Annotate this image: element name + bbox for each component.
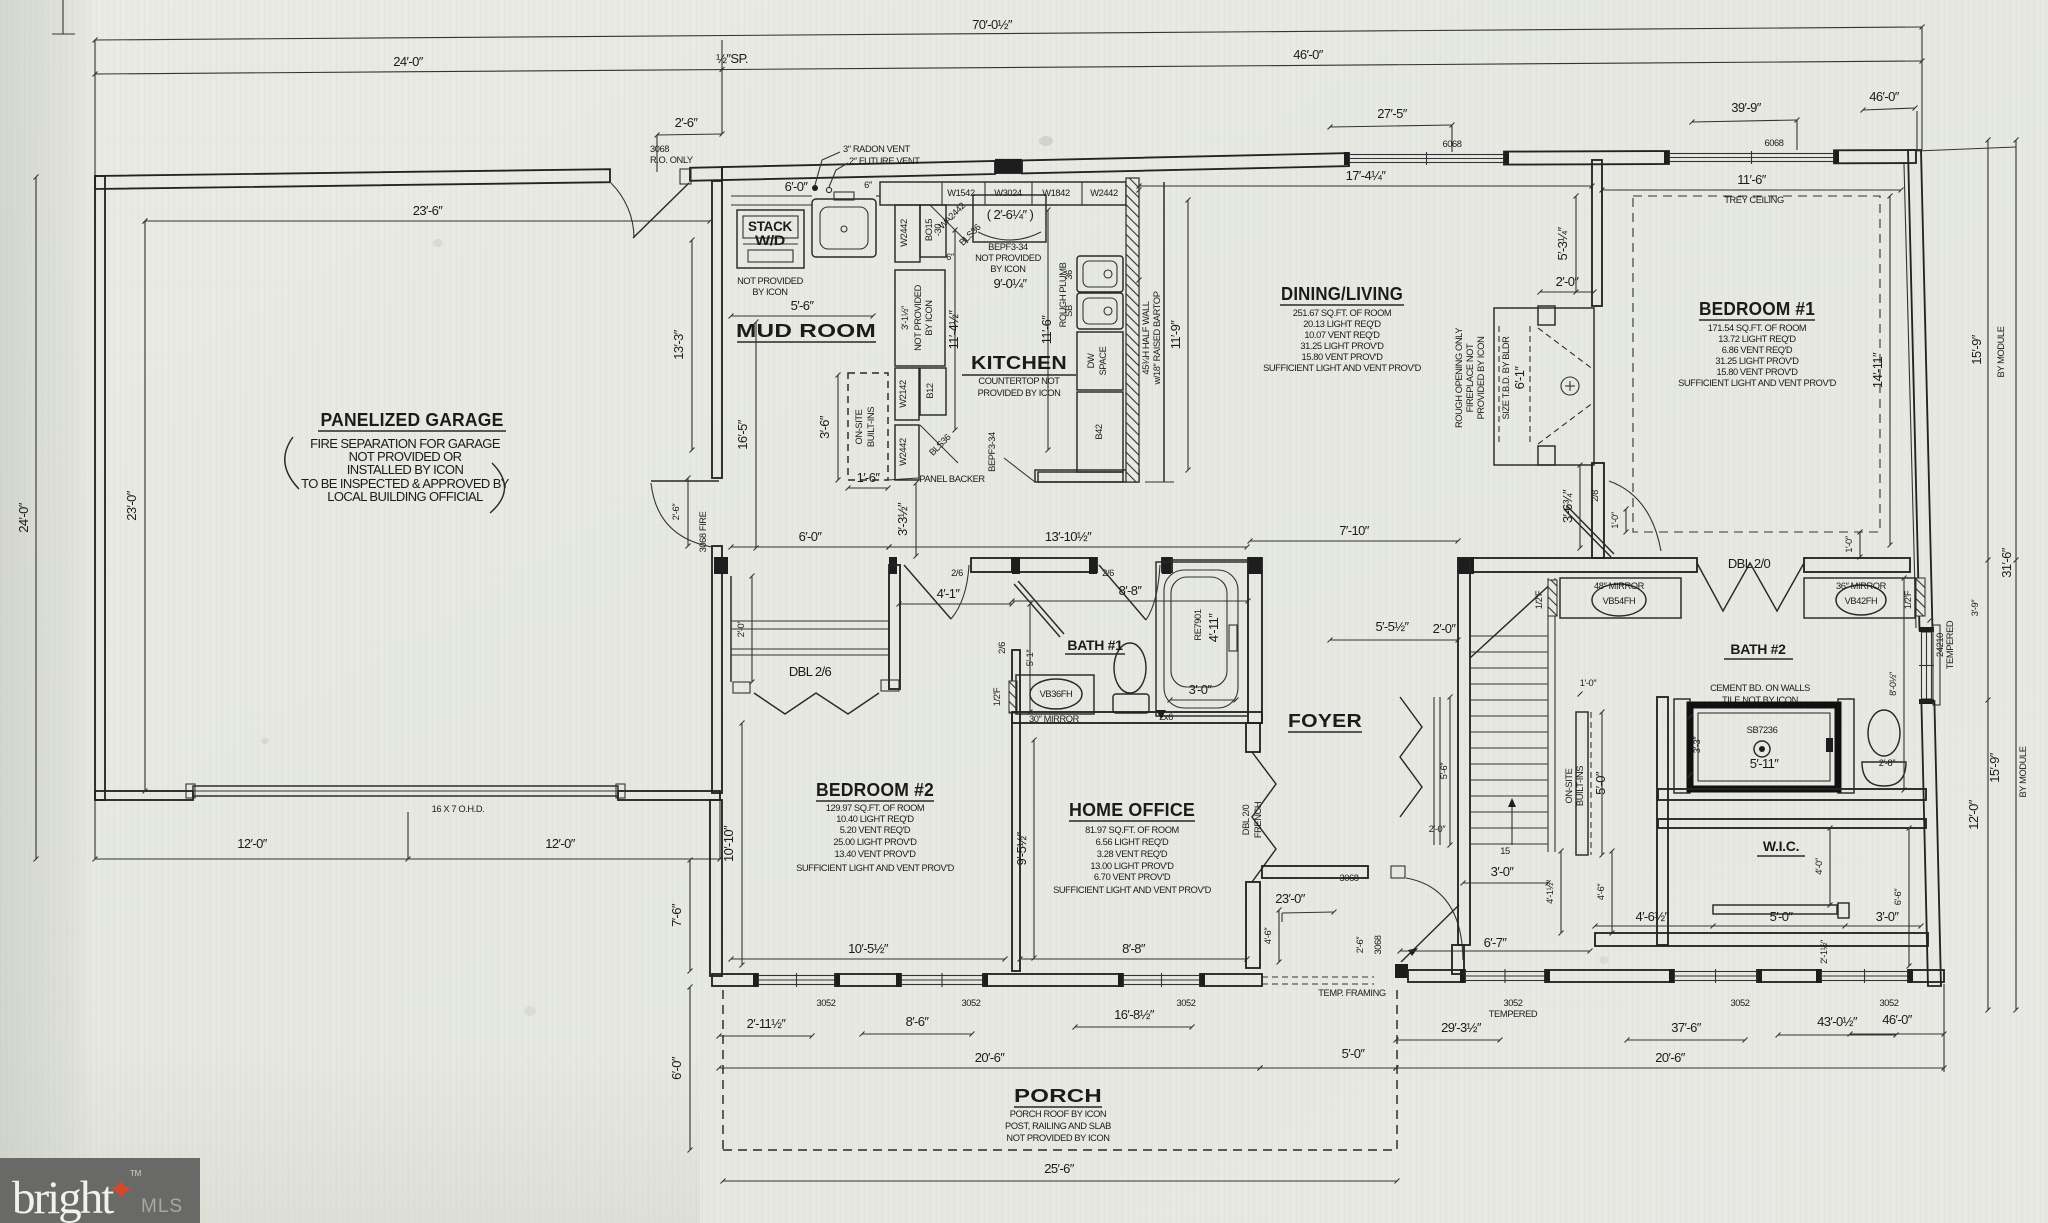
svg-text:43′-0½″: 43′-0½″: [1817, 1014, 1858, 1029]
svg-text:2′-0″: 2′-0″: [736, 620, 746, 638]
closet bifold doors DBL 2/6: [754, 693, 879, 714]
svg-text:4′-6″: 4′-6″: [1263, 927, 1273, 945]
bath1 toilet: [1113, 694, 1149, 713]
svg-text:FRENCH: FRENCH: [1253, 802, 1263, 838]
house right wall lower: [1921, 701, 1941, 986]
svg-text:6′-7″: 6′-7″: [1484, 935, 1508, 950]
wall seg tub left: [1162, 558, 1172, 572]
stair builtins strip: [1576, 712, 1588, 855]
bath2 vanity 48: [1560, 578, 1681, 618]
svg-text:13′-10½″: 13′-10½″: [1045, 529, 1092, 544]
svg-text:BATH #1: BATH #1: [1067, 637, 1123, 653]
dim 23'-0 foyer: [1282, 912, 1334, 913]
foyer south wall: [1262, 866, 1368, 878]
dim 23'-0" garage interior vertical: [144, 221, 146, 791]
svg-text:SIZE T.B.D. BY BLDR: SIZE T.B.D. BY BLDR: [1501, 336, 1511, 420]
svg-text:1/2′F: 1/2′F: [1534, 590, 1544, 609]
svg-text:R.O. ONLY: R.O. ONLY: [650, 155, 693, 165]
kitchen sink cabinets right: [1077, 256, 1123, 292]
svg-text:( 2′-6¼″ ): ( 2′-6¼″ ): [987, 207, 1034, 222]
wall seg east of dbl: [1804, 558, 1910, 572]
svg-text:DBL 2/0: DBL 2/0: [1241, 805, 1251, 836]
dim 2'-0 fireplace: [1540, 291, 1594, 293]
svg-text:5′-6″: 5′-6″: [791, 298, 815, 313]
svg-text:3′-0″: 3′-0″: [1876, 909, 1900, 924]
svg-text:CEMENT BD. ON WALLS: CEMENT BD. ON WALLS: [1710, 683, 1810, 693]
dim 5'-0 rot stairs: [1601, 712, 1603, 855]
svg-text:8′-8″: 8′-8″: [1119, 583, 1143, 598]
svg-text:6.86 VENT REQ′D: 6.86 VENT REQ′D: [1722, 345, 1793, 355]
french door DBL 2/0: [1252, 752, 1276, 882]
svg-text:2′-8″: 2′-8″: [1879, 758, 1897, 768]
closet door 2/6 leaf: [1014, 584, 1060, 637]
closet shelves: [731, 620, 889, 622]
bottom wall front seg: [1395, 964, 1408, 978]
svg-text:2′-6″: 2′-6″: [671, 503, 681, 521]
svg-text:DBL 2/6: DBL 2/6: [789, 664, 832, 679]
svg-text:COUNTERTOP NOT: COUNTERTOP NOT: [978, 376, 1060, 386]
svg-text:171.54 SQ.FT. OF ROOM: 171.54 SQ.FT. OF ROOM: [1708, 323, 1807, 333]
svg-text:VB36FH: VB36FH: [1040, 689, 1073, 699]
svg-text:BY MODULE: BY MODULE: [2018, 746, 2028, 797]
svg-text:3′-6″: 3′-6″: [817, 415, 832, 439]
dim 12'-0" +12'-0" bottom garage: [95, 858, 720, 860]
bath2 toilet: [1868, 710, 1900, 756]
garage fire door to mudroom: [651, 480, 719, 482]
window 3052 bedroom2 w2: [901, 976, 983, 985]
dim 1'-6: [848, 487, 888, 489]
svg-text:VB42FH: VB42FH: [1845, 596, 1878, 606]
wall bath1 east + cap: [1248, 558, 1262, 723]
svg-text:12′-0″: 12′-0″: [237, 836, 267, 851]
svg-text:37′-6″: 37′-6″: [1671, 1020, 1701, 1035]
svg-text:16 X 7 O.H.D.: 16 X 7 O.H.D.: [432, 804, 485, 814]
half wall hatched: [1126, 178, 1139, 482]
svg-text:3′-3″: 3′-3″: [1692, 736, 1702, 754]
svg-text:3′-6¾″: 3′-6¾″: [1560, 489, 1575, 523]
svg-text:11′-6″: 11′-6″: [1737, 172, 1766, 187]
dim 14'-11 rot: [1889, 196, 1891, 545]
stair up arrow: [1511, 802, 1513, 845]
svg-text:16′-8½″: 16′-8½″: [1114, 1007, 1155, 1022]
svg-text:W2442: W2442: [898, 438, 908, 466]
range 2'-6.25: [973, 195, 1046, 242]
hatch post right wall bath2: [1916, 578, 1925, 616]
dim row 24'-0" / 46'-0": [95, 61, 1922, 74]
svg-text:NOT PROVIDED: NOT PROVIDED: [975, 253, 1041, 263]
svg-text:2′-0″: 2′-0″: [1433, 621, 1457, 636]
svg-text:5.20 VENT REQ′D: 5.20 VENT REQ′D: [840, 825, 911, 835]
svg-text:TEMP. FRAMING: TEMP. FRAMING: [1318, 988, 1386, 998]
dim 17'-4.25 dining: [1139, 185, 1592, 187]
house top wall seg4: [1834, 150, 1916, 163]
bath2 west wall: [1657, 697, 1668, 945]
dim 11'-9 rot: [1187, 200, 1189, 470]
wic south wall: [1595, 933, 1928, 946]
house west wall below garage: [710, 800, 722, 976]
house top wall seg2: [1022, 153, 1349, 173]
svg-text:INSTALLED BY ICON: INSTALLED BY ICON: [347, 462, 464, 477]
svg-text:46′-0″: 46′-0″: [1882, 1012, 1912, 1027]
svg-text:3″ RADON VENT: 3″ RADON VENT: [843, 144, 911, 154]
svg-text:BUILT-INS: BUILT-INS: [866, 407, 876, 447]
garage top wall seg1: [95, 169, 610, 189]
fireplace gas symbol: [1561, 377, 1579, 395]
svg-text:PORCH: PORCH: [1014, 1086, 1102, 1106]
svg-text:3052: 3052: [1503, 998, 1522, 1008]
svg-text:BY ICON: BY ICON: [990, 264, 1025, 274]
svg-text:POST, RAILING AND SLAB: POST, RAILING AND SLAB: [1005, 1121, 1111, 1131]
dim 27'-5": [1330, 125, 1452, 127]
foyer coat closet bifold: [1400, 697, 1422, 817]
dim 3'-6.75 rot: [1579, 465, 1581, 548]
dim 3'-3.5 vertical: [915, 483, 917, 556]
svg-text:31′-6″: 31′-6″: [1999, 547, 2014, 577]
svg-text:-30: -30: [933, 224, 943, 236]
svg-text:4′-6½″: 4′-6½″: [1635, 909, 1669, 924]
svg-text:ON-SITE: ON-SITE: [1564, 768, 1574, 803]
bottom wall left seg b: [835, 974, 901, 986]
svg-text:W2442: W2442: [899, 219, 909, 247]
svg-text:10′-10″: 10′-10″: [721, 825, 736, 862]
dim 16'-5 mudroom left: [755, 322, 757, 548]
svg-text:13.00 LIGHT PROV′D: 13.00 LIGHT PROV′D: [1090, 861, 1174, 871]
svg-text:24′-0″: 24′-0″: [16, 502, 31, 532]
svg-text:2′-1½″: 2′-1½″: [1819, 939, 1829, 964]
wall below fireplace: [1592, 463, 1604, 558]
svg-text:W/D: W/D: [755, 232, 785, 248]
tray ceiling dashed: [1633, 196, 1880, 532]
svg-text:25′-6″: 25′-6″: [1044, 1161, 1074, 1176]
svg-text:TEMPERED: TEMPERED: [1489, 1009, 1538, 1019]
window 3052 tempered foyer: [1465, 972, 1545, 981]
svg-text:4′-6″: 4′-6″: [1596, 883, 1606, 901]
svg-text:SUFFICIENT LIGHT AND VENT: SUFFICIENT LIGHT AND VENT PROV′D: [1053, 885, 1212, 895]
dim 5'-5.5 foyer: [1330, 639, 1458, 641]
svg-text:27′-5″: 27′-5″: [1377, 106, 1407, 121]
opening 7'-10 dim: [1250, 540, 1458, 542]
window 6068 A: [1349, 155, 1504, 163]
svg-text:8′-8″: 8′-8″: [1122, 941, 1146, 956]
dim 16'-8.5: [1075, 1026, 1192, 1028]
chimney block: [995, 159, 1022, 174]
svg-text:3068: 3068: [1339, 873, 1358, 883]
svg-text:13.72 LIGHT REQ′D: 13.72 LIGHT REQ′D: [1718, 334, 1796, 344]
bathtub RE7901: [1156, 562, 1248, 716]
svg-text:2/6: 2/6: [1102, 568, 1114, 578]
svg-text:4′-1½″: 4′-1½″: [1545, 879, 1555, 904]
svg-text:2″ FUTURE VENT: 2″ FUTURE VENT: [849, 156, 920, 166]
garage top wall seg2: [690, 167, 722, 181]
svg-text:16′-5″: 16′-5″: [735, 419, 750, 449]
dim 4'-6 rot hall: [1611, 851, 1613, 933]
svg-text:129.97 SQ.FT. OF ROOM: 129.97 SQ.FT. OF ROOM: [826, 803, 925, 813]
svg-text:6.70 VENT PROV′D: 6.70 VENT PROV′D: [1094, 872, 1171, 882]
svg-text:3052: 3052: [1176, 998, 1195, 1008]
window 3052 bedroom2 w1: [758, 976, 835, 985]
dim 2'-0 closet: [751, 576, 753, 682]
svg-text:6068: 6068: [1442, 139, 1461, 149]
svg-text:12′-0″: 12′-0″: [545, 836, 575, 851]
dim 10'-5.5: [731, 958, 1005, 960]
dim 20'-6 left: [719, 1067, 1260, 1069]
svg-text:3068 FIRE: 3068 FIRE: [698, 511, 708, 552]
svg-text:KITCHEN: KITCHEN: [971, 353, 1067, 373]
dim 5'-6 mudroom: [731, 315, 873, 317]
svg-text:9′-5½″: 9′-5½″: [1014, 831, 1029, 865]
svg-text:BEDROOM #2: BEDROOM #2: [816, 780, 934, 800]
dim 4'-6 rot entry: [1278, 910, 1280, 962]
dim 5'-6 rot closet: [1449, 697, 1451, 845]
svg-text:6′-6″: 6′-6″: [1893, 888, 1903, 906]
tub back line: [1170, 559, 1248, 561]
svg-text:DW: DW: [1086, 353, 1096, 368]
window 3052 wic w2: [1821, 972, 1908, 981]
svg-text:11′-9″: 11′-9″: [1168, 320, 1183, 349]
dims above wic wall: [1595, 925, 1713, 927]
mudroom sink: [812, 199, 876, 257]
svg-text:17′-4¼″: 17′-4¼″: [1346, 168, 1387, 183]
svg-text:46′-0″: 46′-0″: [1869, 89, 1899, 104]
svg-text:11′-4½″: 11′-4½″: [946, 310, 961, 350]
svg-text:6068: 6068: [1764, 138, 1783, 148]
svg-text:5′-11″: 5′-11″: [1750, 756, 1779, 771]
bottom wall right seg b: [1757, 970, 1821, 982]
garage bottom wall seg2: [618, 791, 720, 800]
stair sides: [1547, 578, 1549, 852]
kitchen corner cabinet diagonal: [930, 205, 968, 243]
house top wall seg3: [1504, 151, 1669, 165]
garage left wall: [95, 176, 105, 800]
cap closet right: [889, 557, 897, 574]
svg-text:BY MODULE: BY MODULE: [1996, 326, 2006, 377]
dim 5'-3.25 hall: [1138, 190, 1140, 280]
dim 46'-0" right top: [1863, 108, 1915, 110]
svg-text:PANEL BACKER: PANEL BACKER: [919, 474, 985, 484]
dim 4'-0 rot: [1829, 828, 1831, 905]
svg-text:SUFFICIENT LIGHT AND VENT: SUFFICIENT LIGHT AND VENT PROV′D: [1263, 363, 1422, 373]
svg-text:MUD ROOM: MUD ROOM: [736, 321, 876, 341]
home office east wall upper: [1246, 723, 1260, 752]
dim 70'-0.5" overall top: [95, 27, 1922, 40]
svg-text:5′-3¼″: 5′-3¼″: [1555, 226, 1570, 260]
dim 43'-0.5: [1778, 1034, 1896, 1036]
svg-text:36″ MIRROR: 36″ MIRROR: [1836, 581, 1887, 591]
svg-text:6′-0″: 6′-0″: [785, 179, 809, 194]
shower south band: [1658, 789, 1926, 800]
svg-text:5′-1″: 5′-1″: [1025, 649, 1035, 667]
bottom wall right seg c: [1908, 970, 1944, 982]
svg-text:W2142: W2142: [898, 380, 908, 408]
svg-text:W1542: W1542: [947, 188, 975, 198]
svg-text:TM: TM: [130, 1169, 142, 1178]
bright MLS watermark: [0, 1158, 200, 1223]
svg-text:39′-9″: 39′-9″: [1731, 100, 1761, 115]
svg-text:29′-3½″: 29′-3½″: [1441, 1020, 1482, 1035]
svg-text:2′-0″: 2′-0″: [1429, 824, 1447, 834]
raised bartop lines: [1163, 182, 1165, 482]
dim 10'-10 rot: [741, 723, 743, 965]
svg-text:7′-10″: 7′-10″: [1339, 523, 1369, 538]
svg-text:10.07 VENT REQ′D: 10.07 VENT REQ′D: [1304, 330, 1380, 340]
garage east wall upper: [712, 181, 722, 478]
svg-text:24210: 24210: [1935, 633, 1945, 657]
svg-text:bright: bright: [12, 1172, 114, 1223]
svg-text:23′-0″: 23′-0″: [124, 490, 139, 520]
svg-text:FIREPLACE NOT: FIREPLACE NOT: [1465, 343, 1475, 412]
cap west end: [714, 557, 728, 574]
porch dashed outline: [722, 990, 724, 1150]
svg-text:PROVIDED BY ICON: PROVIDED BY ICON: [978, 388, 1061, 398]
svg-text:2/6: 2/6: [997, 642, 1007, 654]
house right wall upper: [1908, 150, 1933, 630]
svg-text:3′-1½″: 3′-1½″: [900, 305, 910, 330]
svg-text:4′-1″: 4′-1″: [937, 586, 961, 601]
bedroom2 door 2/6: [904, 565, 951, 619]
svg-text:W3024: W3024: [994, 188, 1022, 198]
closet west line: [730, 576, 732, 682]
dim 37'-6: [1627, 1039, 1745, 1041]
right dim line A: [1987, 140, 1989, 1010]
shower SB7236: [1690, 705, 1838, 789]
dim 8'-6: [862, 1033, 972, 1035]
dim 4'-1: [899, 603, 1012, 605]
dim 3'-0 stairs: [1463, 882, 1548, 884]
svg-text:15′-9″: 15′-9″: [1969, 334, 1984, 364]
b42 cabinet: [1077, 392, 1123, 472]
svg-text:2′-11½″: 2′-11½″: [747, 1016, 787, 1031]
closet DBL 2/0 bifold hall: [1697, 563, 1804, 611]
svg-text:8′-0½″: 8′-0½″: [1888, 671, 1898, 696]
svg-text:NOT PROVIDED: NOT PROVIDED: [913, 284, 923, 350]
svg-text:5′-0″: 5′-0″: [1342, 1046, 1366, 1061]
kitchen bottom counters: [1038, 472, 1123, 482]
dim 2'-6" garage RO door: [657, 134, 722, 135]
wall seg bedroom2 door right: [971, 558, 1012, 572]
garage bottom wall seg1: [95, 791, 193, 800]
dim 6'-0 opening: [731, 546, 889, 548]
svg-text:1′-0″: 1′-0″: [1580, 678, 1598, 688]
svg-text:6″: 6″: [946, 252, 955, 262]
svg-text:23′-6″: 23′-6″: [413, 203, 443, 218]
dim 7'-6 rot left: [689, 860, 691, 971]
dim 13'-10.5 kitchen south opening: [889, 546, 1247, 548]
svg-text:6″: 6″: [864, 180, 873, 190]
stairs hall top wall: [1458, 558, 1697, 572]
svg-text:3052: 3052: [1879, 998, 1898, 1008]
svg-text:SPACE: SPACE: [1098, 346, 1108, 375]
svg-text:2/8: 2/8: [1590, 490, 1600, 502]
fireplace rough opening: [1494, 308, 1594, 465]
svg-text:20′-6″: 20′-6″: [1655, 1050, 1685, 1065]
svg-text:3068: 3068: [1373, 935, 1383, 954]
mudroom built-ins dashed: [848, 373, 888, 480]
dim 13'-3" mudroom side: [691, 240, 693, 450]
dw space: [1077, 332, 1123, 390]
garage door 3068 RO swing: [680, 169, 691, 184]
window 6068 B: [1669, 154, 1834, 162]
dim 8'-8 home office: [1020, 958, 1247, 960]
dim 11'-6 rot: [1047, 210, 1049, 450]
svg-text:20′-6″: 20′-6″: [975, 1050, 1005, 1065]
photo smudges: [1039, 136, 1053, 146]
svg-text:31.25 LIGHT PROV′D: 31.25 LIGHT PROV′D: [1715, 356, 1799, 366]
svg-text:3′-0″: 3′-0″: [1189, 682, 1213, 697]
svg-text:TREY CEILING: TREY CEILING: [1724, 195, 1784, 205]
dim 3'-3 ticks: [1688, 715, 1693, 720]
svg-text:PANELIZED GARAGE: PANELIZED GARAGE: [321, 410, 504, 430]
svg-text:PROVIDED BY ICON: PROVIDED BY ICON: [1476, 337, 1486, 420]
window 24210 right wall: [1922, 632, 1932, 699]
svg-text:23′-0″: 23′-0″: [1275, 891, 1305, 906]
garage note parens: [285, 437, 299, 489]
svg-text:ROUGH PLUMB: ROUGH PLUMB: [1058, 262, 1068, 327]
svg-text:9′-0¼″: 9′-0¼″: [993, 276, 1027, 291]
svg-text:15: 15: [1500, 846, 1510, 856]
svg-text:6′-1″: 6′-1″: [1512, 366, 1527, 390]
right dim line B: [2015, 140, 2017, 1010]
temp framing dashed: [1262, 976, 1374, 978]
svg-text:7′-6″: 7′-6″: [669, 903, 684, 927]
window 3052 home office: [1123, 976, 1200, 985]
bath2 vanity 36: [1804, 578, 1915, 618]
svg-text:BEPF3-34: BEPF3-34: [987, 432, 997, 472]
svg-text:6′-0″: 6′-0″: [669, 1056, 684, 1080]
wall bedroom2-hall vertical: [1012, 650, 1020, 971]
house top wall seg1: [722, 161, 995, 180]
svg-text:4′-0″: 4′-0″: [1814, 857, 1824, 875]
dim 1'-0 rot bedroom1 se: [1859, 532, 1861, 557]
svg-text:20.13 LIGHT REQ′D: 20.13 LIGHT REQ′D: [1303, 319, 1381, 329]
mudroom counter top: [731, 204, 812, 206]
svg-text:NOT PROVIDED: NOT PROVIDED: [737, 276, 803, 286]
svg-text:3068: 3068: [650, 144, 669, 154]
dim 5'-1 rot: [1029, 604, 1031, 712]
svg-text:13.40 VENT PROV′D: 13.40 VENT PROV′D: [834, 849, 916, 859]
svg-text:48″ MIRROR: 48″ MIRROR: [1594, 581, 1645, 591]
bedroom1 door 2/8: [1564, 509, 1611, 557]
bath1 south wall: [1012, 712, 1262, 723]
svg-text:BATH #2: BATH #2: [1730, 641, 1786, 657]
dim 3'-9 small: [1928, 618, 1933, 623]
bath1 vanity: [1016, 675, 1094, 714]
top extension lines: [94, 40, 96, 176]
stair break diagonal: [1470, 580, 1555, 658]
wall dining/bedroom1 divider: [1592, 160, 1602, 306]
bottom wall left seg d: [1200, 974, 1262, 986]
svg-text:3052: 3052: [1730, 998, 1749, 1008]
dim 20'-6 right: [1396, 1067, 1944, 1069]
front door 3068 arc: [1406, 878, 1463, 960]
garage overhead door recess: [193, 786, 618, 796]
svg-text:½″SP.: ½″SP.: [716, 51, 748, 66]
svg-text:251.67 SQ.FT. OF ROOM: 251.67 SQ.FT. OF ROOM: [1293, 308, 1392, 318]
svg-text:1/2′F: 1/2′F: [992, 687, 1002, 706]
svg-text:PORCH ROOF BY ICON: PORCH ROOF BY ICON: [1010, 1109, 1106, 1119]
svg-text:B42: B42: [1094, 424, 1104, 440]
svg-text:3′-9″: 3′-9″: [1970, 599, 1980, 617]
svg-text:25.00 LIGHT PROV′D: 25.00 LIGHT PROV′D: [833, 837, 917, 847]
svg-text:45¾H HALF WALL: 45¾H HALF WALL: [1141, 301, 1151, 374]
dim 5'-0 center: [1260, 1067, 1396, 1069]
svg-text:BY ICON: BY ICON: [924, 300, 934, 335]
dim 11'-4.5 rot: [954, 230, 956, 430]
dim 5'-3.25 rot: [1575, 196, 1577, 292]
kitchen lower cab row + bepf: [1035, 470, 1139, 482]
bottom wall left seg a: [712, 974, 758, 986]
svg-text:1′-6″: 1′-6″: [857, 470, 881, 485]
garage east wall lower: [712, 546, 722, 793]
